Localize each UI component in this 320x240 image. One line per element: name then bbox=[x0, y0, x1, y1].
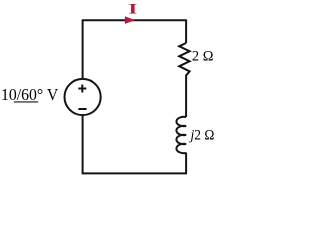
wire left lower bbox=[82, 115, 84, 173]
minus sign bbox=[78, 108, 86, 110]
svg-text:2 Ω: 2 Ω bbox=[192, 48, 214, 64]
inductor L j2ohm bbox=[176, 117, 186, 153]
wire left upper bbox=[82, 19, 84, 79]
resistor R 2ohm bbox=[179, 43, 189, 76]
wire right middle bbox=[185, 75, 187, 118]
angle underline bbox=[14, 101, 38, 103]
svg-text:j2 Ω: j2 Ω bbox=[189, 127, 215, 144]
wire bottom bbox=[82, 172, 187, 174]
voltage source VS bbox=[65, 79, 101, 115]
wire top bbox=[83, 19, 187, 21]
wire right upper bbox=[185, 19, 187, 43]
svg-text:I: I bbox=[128, 2, 137, 18]
plus sign bbox=[78, 85, 86, 93]
wire right lower bbox=[185, 153, 187, 174]
current arrow bbox=[125, 16, 135, 24]
